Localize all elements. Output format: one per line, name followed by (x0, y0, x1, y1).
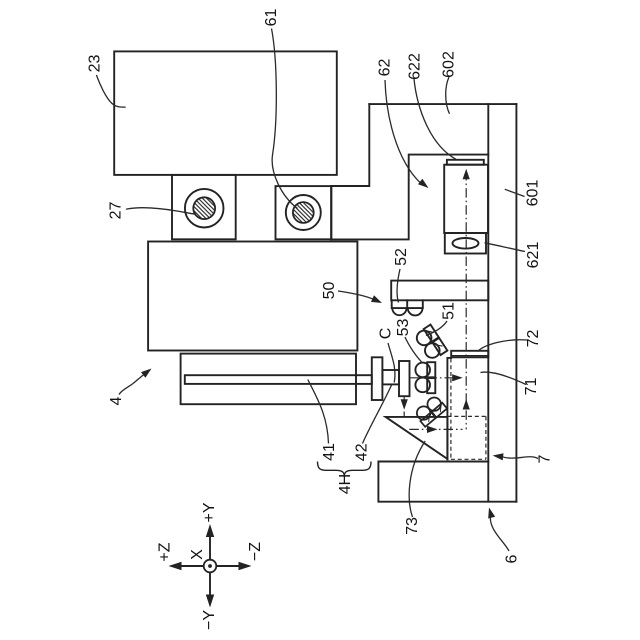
leader 51 (426, 321, 447, 336)
leader C (388, 343, 395, 383)
leader 601 (505, 189, 525, 196)
svg-text:621: 621 (525, 242, 542, 269)
arrowhead 50 (371, 295, 382, 303)
rail 601 inner edge (487, 104, 489, 502)
bolt 27 hatched core (193, 197, 215, 219)
box 71 left edge (447, 358, 451, 459)
leader 52 (397, 269, 400, 303)
bar 72 inner line (451, 355, 488, 357)
leader 23 (96, 75, 125, 107)
axes cross (172, 528, 248, 604)
svg-text:+Z: +Z (157, 542, 174, 561)
bolt block 61 (276, 186, 332, 239)
bolt 61 hatched core (293, 202, 314, 223)
arrowhead 6 (488, 508, 495, 519)
svg-text:4: 4 (108, 396, 125, 405)
leader 72 (478, 340, 528, 352)
svg-text:52: 52 (393, 248, 410, 266)
svg-text:602: 602 (441, 51, 458, 78)
top edge 602 (369, 103, 516, 105)
leader 53 (405, 337, 422, 362)
svg-text:−Z: −Z (247, 542, 264, 561)
leader 7 (501, 456, 538, 458)
leader 622 (414, 79, 456, 159)
optical axis vertical (465, 171, 467, 429)
prism 73 (386, 417, 448, 459)
leader 73 (409, 441, 425, 517)
svg-text:−Y: −Y (201, 610, 218, 630)
leader 602 (446, 77, 450, 114)
svg-text:51: 51 (441, 302, 458, 320)
svg-text:71: 71 (523, 378, 540, 396)
leader 621 (485, 243, 526, 252)
axis arrow mid (463, 399, 470, 410)
flange 42b (399, 361, 410, 396)
lamp box 52 (392, 300, 423, 308)
roller pair 51 top (414, 325, 448, 362)
leader 62 (385, 80, 421, 184)
bolt 61 outer circle (286, 195, 321, 230)
base block 6 (378, 462, 516, 502)
leader 4 (119, 373, 146, 395)
lens unit 621 (445, 233, 486, 254)
leader 50 (338, 291, 374, 300)
cap 622 (447, 160, 484, 165)
svg-text:+Y: +Y (201, 502, 218, 522)
camera 62 body (444, 165, 488, 233)
beam down segment (403, 397, 405, 417)
bolt block 27 (172, 175, 236, 239)
leader 61 (272, 29, 298, 209)
rail 601 outer edge (515, 104, 517, 502)
svg-text:61: 61 (263, 9, 280, 27)
beam C horizontal (410, 377, 458, 379)
lamp shelf 50 (391, 281, 488, 301)
svg-text:27: 27 (108, 202, 125, 220)
leader 41 (308, 380, 329, 444)
bolt 27 outer circle (185, 189, 224, 228)
svg-text:7: 7 (537, 454, 554, 463)
svg-text:622: 622 (407, 53, 424, 80)
svg-text:C: C (378, 328, 395, 340)
plate 23 (114, 51, 337, 174)
leader 6 (490, 515, 509, 551)
bracket 602 outline (331, 104, 488, 239)
axes arrow left +Z (169, 562, 182, 570)
svg-text:42: 42 (354, 443, 371, 461)
axes origin dot (208, 564, 212, 568)
arrowhead 62 (418, 179, 429, 188)
svg-text:23: 23 (87, 55, 104, 73)
flange 42a (372, 357, 383, 400)
svg-text:73: 73 (404, 517, 421, 535)
svg-text:50: 50 (321, 282, 338, 300)
svg-text:62: 62 (377, 59, 394, 77)
leader 71 (481, 372, 527, 384)
spindle housing (181, 354, 356, 405)
box 71 hidden edges (448, 358, 486, 459)
svg-text:X: X (189, 549, 206, 560)
beam down arrowhead (401, 399, 408, 410)
rod 41 (185, 375, 372, 384)
arrowhead 7 (493, 453, 504, 460)
lamp dome 52b (408, 308, 423, 315)
lens ellipse 621 (453, 238, 479, 249)
axes arrow right -Z (239, 562, 252, 570)
svg-text:72: 72 (525, 330, 542, 348)
svg-text:53: 53 (395, 319, 412, 337)
axes origin circle X (204, 560, 217, 573)
axis arrow top (463, 169, 470, 180)
beam prism horizontal (409, 428, 462, 430)
svg-text:601: 601 (525, 180, 542, 207)
roller pair 73 bottom (413, 394, 447, 426)
svg-text:41: 41 (321, 443, 338, 461)
svg-text:4H: 4H (337, 474, 354, 494)
brace 4H (318, 462, 372, 477)
block 50 body (148, 242, 357, 351)
lamp dome 52a (392, 308, 406, 315)
leader 42 (363, 384, 393, 444)
roller pair 53 (415, 362, 435, 393)
arrowhead 4 (141, 369, 152, 378)
beam C arrowhead (452, 374, 463, 381)
axes arrow up +Y (206, 524, 214, 537)
leader 27 (126, 208, 196, 215)
beam prism arrowhead (427, 426, 438, 433)
workpiece C body (382, 370, 399, 384)
sensor bar 72 (451, 351, 488, 358)
svg-text:6: 6 (504, 554, 521, 563)
axes arrow down -Y (206, 595, 214, 608)
